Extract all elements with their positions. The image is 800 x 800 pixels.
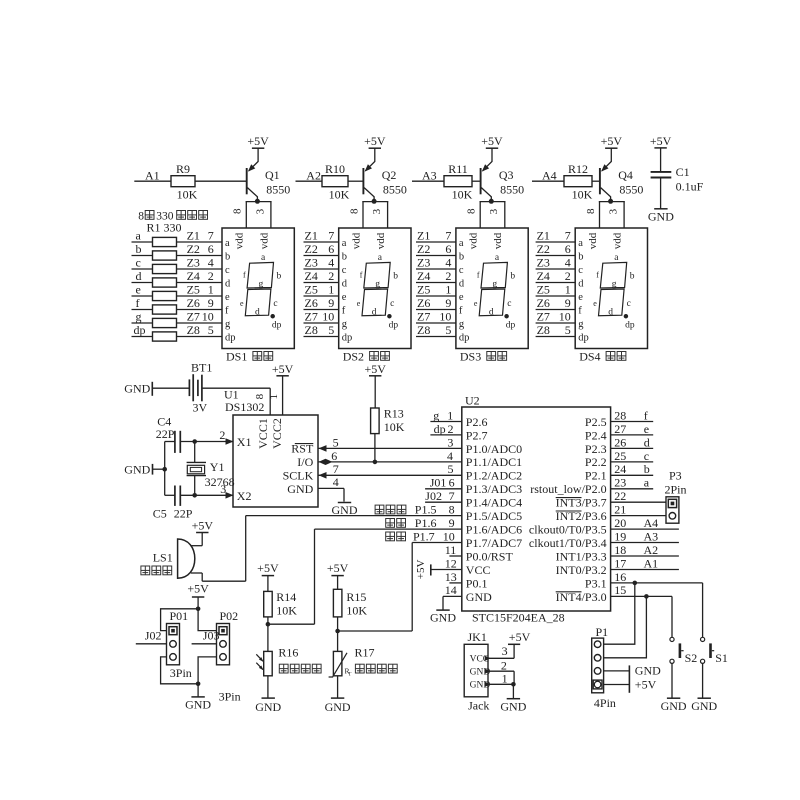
wire common-anode pins DS2 [362,202,388,228]
svg-text:10K: 10K [329,188,350,202]
svg-text:10: 10 [439,310,451,324]
svg-text:1: 1 [565,283,571,297]
svg-text:vdd: vdd [350,232,362,249]
svg-text:7: 7 [445,229,451,243]
svg-text:Z1: Z1 [537,229,550,243]
ground C1 [648,209,674,224]
svg-text:8550: 8550 [383,183,407,197]
svg-text:Z1: Z1 [417,229,430,243]
label DS3 common anode [460,349,507,363]
svg-text:A1: A1 [644,556,659,570]
net label e pin 27 [614,422,649,436]
svg-text:+5V: +5V [364,134,386,148]
svg-text:f: f [360,271,363,280]
svg-text:a: a [136,228,142,242]
wire DS2 segment b [304,255,339,257]
svg-text:d: d [255,307,260,317]
svg-text:vdd: vdd [587,232,599,249]
svg-text:+5V: +5V [187,582,209,596]
svg-text:12: 12 [445,556,457,570]
svg-text:e: e [474,299,478,308]
ground R17 [325,676,351,714]
resistor R14 10K [264,590,298,652]
svg-text:a: a [225,238,230,249]
net label d pin 26 [614,435,650,449]
+5V supply R14 [257,561,279,592]
capacitor C4 22P [156,414,233,453]
net label Z3 pin 4 DS4 [537,256,571,270]
wire DS4 segment e [536,295,576,297]
svg-text:+5V: +5V [635,678,657,692]
wire buzzer net to U2 pin8 [246,515,462,517]
7-segment display DS1 [222,228,294,349]
svg-text:X1: X1 [237,435,252,449]
wire DS2 segment e [304,295,339,297]
wire P1 pin3 GND [604,670,630,672]
svg-text:5: 5 [333,435,339,449]
net label dp pin 2 [434,422,454,436]
net label A2 pin 18 [614,543,658,557]
wire net I/O U1 to U2 pin4 [318,461,462,463]
junction R14 R16 [266,622,271,627]
wire U2 pin1 g [430,421,461,423]
svg-text:P1.1/ADC1: P1.1/ADC1 [466,455,522,469]
svg-text:Z7: Z7 [417,310,430,324]
wire U2 pin2 dp [430,434,461,436]
svg-text:Z8: Z8 [187,323,200,337]
svg-text:f: f [136,296,140,310]
svg-text:S1: S1 [715,651,728,665]
resistor R1 element 5 (e) [132,282,223,300]
net label Z7 pin 10 DS4 [537,310,571,324]
ground S2 [661,698,687,713]
wire JK1 pin1 ground [488,683,513,685]
+5V supply Q1 [247,134,269,148]
svg-text:GND: GND [332,503,358,517]
svg-text:4: 4 [445,256,451,270]
svg-text:R12: R12 [568,162,588,176]
ground JK1 [500,684,526,713]
net label Z7 pin 10 DS2 [305,310,335,324]
svg-text:VCC: VCC [466,563,491,577]
svg-text:c: c [225,265,230,276]
resistor R16 photoresistor [256,646,321,676]
svg-text:d: d [459,279,465,290]
wire R10 to Q2 base [348,180,363,182]
svg-text:I/O: I/O [297,455,313,469]
wire U2 pin17 net A1 [611,569,679,571]
svg-text:Z8: Z8 [417,323,430,337]
svg-text:A4: A4 [644,516,659,530]
svg-text:P3.1: P3.1 [585,576,607,590]
svg-text:19: 19 [614,529,626,543]
svg-text:P0.1: P0.1 [466,576,488,590]
svg-text:8: 8 [348,208,360,214]
pin arrow X1 [226,438,234,445]
svg-text:g: g [136,309,142,323]
svg-text:dp: dp [578,333,589,344]
connector P1 4Pin [592,625,616,710]
svg-text:+5V: +5V [601,134,623,148]
svg-text:2: 2 [501,658,507,672]
svg-text:P2.1: P2.1 [585,469,607,483]
net label temperature P1.7 pin 10 [386,529,455,543]
svg-text:Z6: Z6 [537,296,550,310]
connector JK1 power jack [464,630,491,712]
junction C5 Y1 [192,493,197,498]
net label A4 pin 20 [614,516,658,530]
wire U2 pin20 net A4 [611,528,679,530]
resistor R9 [171,162,198,202]
wire U2 pin27 segment e [611,434,654,436]
svg-text:dp: dp [342,333,353,344]
svg-text:10K: 10K [384,420,405,434]
svg-text:d: d [342,279,348,290]
svg-text:Z4: Z4 [417,269,430,283]
svg-text:P3: P3 [669,469,682,483]
svg-text:10K: 10K [572,188,593,202]
svg-text:3: 3 [502,644,508,658]
7-segment display DS4 [575,228,647,349]
wire R11 to Q3 base [472,180,480,182]
svg-text:10K: 10K [177,188,198,202]
svg-text:INT1/P3.3: INT1/P3.3 [556,549,607,563]
svg-text:10: 10 [202,310,214,324]
svg-text:7: 7 [328,229,334,243]
svg-text:INT0/P3.2: INT0/P3.2 [556,563,607,577]
svg-text:vdd: vdd [234,232,246,249]
svg-text:vdd: vdd [492,232,504,249]
net label Z6 pin 9 [187,296,214,310]
svg-text:22P: 22P [156,427,175,441]
wire JK1 VCC to +5V [488,644,514,658]
svg-text:dp: dp [625,320,635,330]
svg-text:d: d [489,307,494,317]
svg-text:VCC2: VCC2 [270,418,284,449]
svg-text:18: 18 [614,543,626,557]
resistor R15 10K [333,589,367,651]
svg-text:d: d [608,307,613,317]
svg-text:Jack: Jack [468,698,489,712]
svg-text:GND: GND [430,611,456,625]
wire DS3 segment f [416,309,456,311]
wire buzzer to P1.5 net [202,516,246,582]
label DS1 common anode [226,349,273,363]
svg-text:c: c [578,265,583,276]
svg-text:Z1: Z1 [305,229,318,243]
svg-text:b: b [459,252,464,263]
svg-text:Z2: Z2 [417,242,430,256]
svg-text:5: 5 [448,462,454,476]
svg-text:Q1: Q1 [265,168,280,182]
junction Q3 collector [489,199,494,204]
net label Z6 pin 9 DS4 [537,296,571,310]
svg-text:DS1302: DS1302 [225,400,264,414]
svg-text:R1 330: R1 330 [147,221,182,235]
svg-text:10: 10 [559,310,571,324]
ground P01 P02 [185,684,211,712]
svg-text:P2.6: P2.6 [466,415,488,429]
wire DS4 segment dp [536,336,576,338]
wire DS3 segment dp [416,336,456,338]
U2 internal pin labels [466,415,607,604]
ground R16 [255,676,281,714]
svg-text:b: b [342,252,347,263]
svg-text:A1: A1 [145,168,160,182]
svg-text:b: b [277,272,282,282]
svg-text:A3: A3 [644,529,659,543]
transistor Q4 8550 PNP [600,148,644,201]
svg-text:P2.7: P2.7 [466,428,488,442]
7-segment display DS2 [339,228,411,349]
svg-text:7: 7 [333,462,339,476]
wire temperature net to U2 pin10 [338,543,462,632]
wire U2 pin19 net A3 [611,542,679,544]
junction C4 Y1 [192,439,197,444]
svg-text:g: g [578,319,584,330]
wire left branch C4 C5 [164,442,166,496]
wire DS2 segment dp [304,336,339,338]
net label Z5 pin 1 DS3 [417,283,451,297]
svg-text:27: 27 [614,422,626,436]
net label Z2 pin 6 DS2 [305,242,335,256]
svg-text:+5V: +5V [272,362,294,376]
svg-text:vdd: vdd [258,232,270,249]
wire DS4 segment c [536,268,576,270]
net label light P1.6 pin 9 [386,516,455,530]
svg-text:1: 1 [208,283,214,297]
svg-text:P2.2: P2.2 [585,455,607,469]
svg-text:6: 6 [208,242,214,256]
+5V supply Q4 [601,134,623,148]
svg-text:P1.5/ADC5: P1.5/ADC5 [466,509,522,523]
svg-text:f: f [459,306,463,317]
svg-text:U2: U2 [465,394,480,408]
svg-text:6: 6 [328,242,334,256]
svg-text:26: 26 [614,435,626,449]
svg-text:S2: S2 [685,651,698,665]
wire R9 to Q1 base [195,180,246,182]
wire DS4 segment d [536,282,576,284]
svg-text:Z6: Z6 [305,296,318,310]
svg-text:GND: GND [691,699,717,713]
svg-text:c: c [459,265,464,276]
wire DS4 segment a [536,241,576,243]
net label Z1 pin 7 DS2 [305,229,335,243]
svg-text:c: c [273,299,277,309]
wire BT1 to U1 VCC1 pin 8 [202,388,270,415]
wire U2 pin16 P3.1 to S1 [611,583,703,637]
svg-text:GND: GND [500,700,526,714]
svg-text:dp: dp [134,323,146,337]
ground battery [124,382,152,396]
wire P02 pin3 to ground [198,657,216,684]
svg-text:GND: GND [325,700,351,714]
svg-text:Z4: Z4 [305,269,318,283]
net label Z2 pin 6 [187,242,214,256]
svg-text:BT1: BT1 [191,361,212,375]
wire U1 GND pin [318,488,344,501]
resistor R11 [444,162,473,202]
+5V supply JK1 [508,630,531,644]
net label Z4 pin 2 DS3 [417,269,451,283]
svg-text:7: 7 [565,229,571,243]
wire common-anode pins DS3 [480,202,506,228]
svg-text:P02: P02 [220,609,239,623]
svg-text:A3: A3 [422,168,437,182]
7-segment display DS3 [456,228,528,349]
net label Z1 pin 7 DS4 [537,229,571,243]
svg-text:+5V: +5V [192,518,214,532]
svg-text:d: d [644,435,650,449]
svg-text:J02: J02 [425,489,442,503]
svg-text:4: 4 [447,449,453,463]
wire S1 to ground [702,663,704,698]
svg-text:R15: R15 [346,590,366,604]
svg-text:+5V: +5V [257,561,279,575]
net label Z3 pin 4 DS3 [417,256,451,270]
svg-text:C1: C1 [676,165,690,179]
net label Z8 pin 5 DS4 [537,323,571,337]
wire DS4 segment g [536,322,576,324]
svg-text:3: 3 [608,208,620,214]
svg-text:9: 9 [208,296,214,310]
resistor R1 element 2 (b) [132,242,223,260]
wire A1 input [134,180,171,182]
svg-text:P2.3: P2.3 [585,442,607,456]
net label Z1 pin 7 [187,229,214,243]
svg-text:g: g [375,279,380,289]
svg-text:4Pin: 4Pin [594,696,616,710]
svg-text:5: 5 [208,323,214,337]
svg-text:LS1: LS1 [153,551,173,565]
svg-text:b: b [644,462,650,476]
svg-text:8550: 8550 [500,183,524,197]
svg-text:0.1uF: 0.1uF [676,180,704,194]
transistor Q2 8550 PNP [363,148,407,201]
svg-text:6: 6 [445,242,451,256]
wire U2 pin6 J01 [425,488,462,490]
net label Z6 pin 9 DS2 [305,296,335,310]
svg-text:e: e [240,299,244,308]
net label J02 pin 7 [425,489,454,503]
svg-text:3Pin: 3Pin [219,689,241,703]
svg-text:9: 9 [449,516,455,530]
+5V supply U1 VCC2 [272,362,294,415]
svg-text:+5V: +5V [327,561,349,575]
svg-text:GND: GND [287,482,313,496]
svg-text:c: c [136,255,141,269]
svg-text:Q4: Q4 [618,168,633,182]
svg-text:2: 2 [208,269,214,283]
svg-text:8: 8 [138,210,144,222]
svg-text:rstout_low/P2.0: rstout_low/P2.0 [530,482,606,496]
net label Z5 pin 1 [187,283,214,297]
ground U1 [332,503,358,518]
svg-text:20: 20 [614,516,626,530]
svg-text:e: e [644,422,649,436]
net label Z3 pin 4 DS2 [305,256,335,270]
wire DS3 segment b [416,255,456,257]
svg-text:3: 3 [254,208,266,214]
resistor R1 element 3 (c) [132,255,223,273]
net label b pin 24 [614,462,650,476]
wire U2 pin25 segment c [611,461,654,463]
wire U2 pin15 P3.0 to S2 [611,596,672,637]
svg-text:17: 17 [614,556,626,570]
svg-text:25: 25 [614,449,626,463]
capacitor C5 22P [153,486,233,521]
svg-text:c: c [342,265,347,276]
wire J03 to P02 pin2 [192,643,217,645]
svg-text:Q3: Q3 [499,168,514,182]
svg-text:2: 2 [328,269,334,283]
junction Q4 collector [608,199,613,204]
svg-text:b: b [510,272,515,282]
+5V supply U2 VCC [415,560,431,580]
svg-text:A2: A2 [644,543,659,557]
wire U2 pin12 VCC [431,569,462,571]
svg-text:Z4: Z4 [537,269,550,283]
+5V supply R15 [327,561,349,590]
wire U2 pin13 stub [449,582,461,584]
+5V supply Q3 [481,134,503,148]
wire P1 pin2 to P3.0 net [604,596,647,657]
svg-text:Z3: Z3 [187,256,200,270]
switch S1 pushbutton [701,637,728,665]
net label Z5 pin 1 DS4 [537,283,571,297]
svg-text:Z5: Z5 [537,283,550,297]
svg-text:X2: X2 [237,489,252,503]
wire DS2 segment d [304,282,339,284]
svg-text:GND: GND [255,700,281,714]
svg-text:dp: dp [434,422,446,436]
svg-text:b: b [630,272,635,282]
svg-text:c: c [390,299,394,309]
junction R13 I/O line [373,460,378,465]
net label A1 pin 17 [614,556,658,570]
switch S2 pushbutton [670,637,697,665]
+5V supply R13 [364,362,386,408]
svg-text:J03: J03 [203,629,220,643]
wire U2 pin28 segment f [611,421,654,423]
svg-text:b: b [225,252,230,263]
svg-text:3V: 3V [193,401,208,415]
svg-text:Z3: Z3 [417,256,430,270]
svg-text:Z5: Z5 [417,283,430,297]
junction ground branch P01 P02 [196,682,201,687]
svg-text:Z3: Z3 [305,256,318,270]
svg-text:11: 11 [445,543,457,557]
wire net RST U1 to U2 pin3 [318,447,462,449]
+5V supply C1 [650,134,672,172]
svg-text:GND: GND [124,462,150,476]
svg-text:Z1: Z1 [187,229,200,243]
svg-text:Z7: Z7 [537,310,550,324]
wire DS2 segment a [304,241,339,243]
svg-text:a: a [578,238,583,249]
svg-text:8550: 8550 [266,183,290,197]
svg-text:R10: R10 [325,162,345,176]
svg-text:a: a [644,476,650,490]
svg-text:P1.6: P1.6 [415,516,437,530]
svg-text:7: 7 [208,229,214,243]
svg-text:P1.7/ADC7: P1.7/ADC7 [466,536,522,550]
svg-text:1: 1 [502,672,508,686]
pin arrow U1 RST [319,445,327,452]
svg-text:6: 6 [565,242,571,256]
svg-text:b: b [578,252,583,263]
